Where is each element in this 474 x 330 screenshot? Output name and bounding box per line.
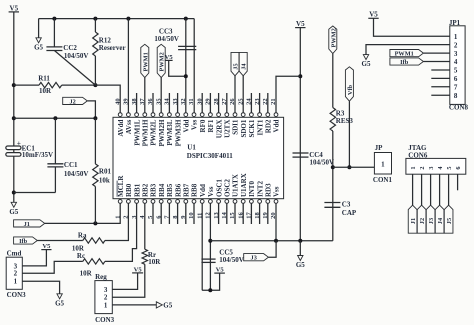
node junction R01/J1 wire — [93, 221, 97, 225]
U1 pin 22 RD2 — [266, 113, 270, 117]
svg-text:CC1: CC1 — [64, 161, 78, 169]
node junction V5/Vdd line — [184, 74, 188, 78]
ground G5 under Cmd — [57, 294, 62, 299]
svg-text:CAP: CAP — [342, 209, 357, 217]
U1 pin 2 RB0 — [126, 200, 130, 204]
wire J5 tag to pin26 — [234, 76, 236, 113]
svg-text:31: 31 — [188, 98, 195, 105]
svg-text:J4: J4 — [437, 217, 444, 224]
svg-text:10mF/35V: 10mF/35V — [22, 151, 53, 159]
U1 pin 12 Vss — [209, 200, 213, 204]
U1 pin 33 PWM3H — [176, 113, 180, 117]
svg-text:V5: V5 — [42, 243, 51, 250]
svg-text:35: 35 — [155, 98, 162, 105]
net tag J5 — [444, 205, 453, 233]
svg-text:36: 36 — [147, 98, 154, 105]
wire V5 to Reg pin3 — [112, 273, 137, 290]
svg-text:Vdd: Vdd — [199, 184, 207, 197]
U1 pin 35 PWM2H — [159, 113, 163, 117]
svg-text:1: 1 — [410, 166, 417, 169]
svg-text:6: 6 — [455, 166, 462, 169]
wire JP1 pin2 to ground — [366, 45, 450, 55]
svg-text:RES3: RES3 — [336, 117, 354, 125]
wire PWM1 tag to JP1 pin3 — [423, 52, 449, 54]
svg-text:Ifb: Ifb — [400, 59, 409, 66]
svg-text:CON1: CON1 — [373, 176, 393, 184]
power V5 mini near CC3 — [165, 59, 173, 61]
power V5 above JP1 — [368, 17, 378, 19]
wire Vss line (pin31) from rail corner — [193, 19, 195, 113]
svg-text:J4: J4 — [241, 63, 248, 70]
U1 pin 37 PWM1H — [143, 113, 147, 117]
svg-text:V5: V5 — [10, 4, 19, 12]
svg-text:+: + — [17, 139, 21, 147]
op-amp/IC U1 DSPIC30F4011 body — [113, 117, 284, 198]
svg-text:28: 28 — [213, 98, 220, 105]
svg-text:4: 4 — [454, 58, 458, 66]
wire V5 to JP1 pin1 — [374, 18, 450, 36]
net tag J1 — [14, 220, 45, 227]
net tag J2 — [63, 97, 88, 104]
svg-text:AVdd: AVdd — [117, 119, 125, 136]
U1 pin 38 PWM1L — [135, 113, 139, 117]
wire J2 to R01 — [87, 101, 95, 118]
node junction V5 line / rail — [298, 239, 302, 243]
wire bottom ground rail — [210, 240, 332, 242]
svg-text:1: 1 — [104, 301, 108, 309]
U1 pin 1 MCLR — [118, 200, 122, 204]
svg-text:1: 1 — [14, 278, 18, 286]
node junction V5/R11 — [12, 83, 16, 87]
svg-text:RD2: RD2 — [265, 119, 273, 133]
wire Vss pin12 line — [209, 203, 211, 290]
svg-text:3: 3 — [428, 166, 435, 169]
wire JP1 pin5-8 stubs — [431, 69, 450, 71]
svg-text:33: 33 — [172, 98, 179, 105]
svg-text:OSC1: OSC1 — [215, 179, 223, 197]
svg-text:SDI1: SDI1 — [232, 119, 240, 135]
svg-text:23: 23 — [254, 98, 261, 105]
svg-text:10R: 10R — [148, 258, 161, 266]
node junction J2/row2 — [93, 116, 97, 120]
net tag PWM2 (to PWM2H pin35) — [157, 44, 165, 77]
svg-text:32: 32 — [180, 98, 187, 105]
svg-text:40: 40 — [114, 98, 121, 105]
net tag J4 (to SDO1 pin25) — [239, 52, 247, 75]
power V5 right rail — [295, 27, 305, 29]
svg-text:104/50V: 104/50V — [310, 159, 335, 167]
wire top rail (AVss net) — [39, 18, 195, 20]
U1 pin 31 Vss — [192, 113, 196, 117]
svg-text:104/50V: 104/50V — [64, 170, 89, 178]
node junction V5/pin21 wire — [298, 74, 302, 78]
svg-text:INT0: INT0 — [248, 181, 256, 197]
svg-text:PWM1L: PWM1L — [133, 119, 141, 145]
svg-text:17: 17 — [246, 212, 253, 219]
capacitor CC1 104/50V — [54, 118, 56, 164]
wire V5 to Vdd pin21 — [276, 76, 300, 112]
wire to JP connector — [333, 166, 375, 168]
node junction Vfb / JP wire — [347, 165, 351, 169]
wire Vfb to JP wire — [348, 101, 350, 167]
net tag J5 (to SDI1 pin26) — [231, 52, 239, 75]
capacitor CC3 104/50V — [178, 45, 196, 47]
svg-text:RB3: RB3 — [150, 183, 158, 197]
svg-text:INT1: INT1 — [256, 119, 264, 135]
svg-text:PWM2H: PWM2H — [158, 119, 166, 146]
svg-text:5: 5 — [446, 166, 453, 169]
U1 pin 16 U1ARX — [241, 200, 245, 204]
power V5 under CC5 — [214, 272, 225, 274]
net tag J4 — [435, 205, 444, 233]
svg-text:U2RX: U2RX — [215, 120, 223, 139]
svg-text:34: 34 — [164, 98, 171, 105]
U1 pin 34 PWM3L — [168, 113, 172, 117]
svg-text:J3: J3 — [428, 218, 435, 224]
node junction CC1 top — [53, 116, 57, 120]
svg-text:3: 3 — [104, 286, 108, 294]
wire J1 to MCLR pin1 — [45, 203, 121, 223]
U1 pin 14 OSC2 — [225, 200, 229, 204]
svg-text:U1: U1 — [187, 143, 196, 151]
svg-text:U1ATX: U1ATX — [232, 174, 240, 197]
svg-text:PWM2: PWM2 — [330, 28, 337, 47]
node junction R12/rail — [93, 17, 97, 21]
svg-text:RB2: RB2 — [142, 183, 150, 197]
svg-text:C3: C3 — [342, 200, 351, 208]
wire CC2 diagonal to junction — [54, 51, 95, 86]
svg-text:1: 1 — [454, 33, 458, 41]
ground G5 right of Reg — [156, 302, 162, 308]
capacitor CC2 104/50V — [53, 19, 55, 47]
resistor R3 RES3 — [332, 54, 334, 108]
U1 pin 13 OSC1 — [217, 200, 221, 204]
svg-text:18: 18 — [254, 212, 261, 219]
svg-text:15: 15 — [229, 212, 236, 219]
U1 pin 9 RB7 — [184, 200, 188, 204]
wire Vss pin11 line — [201, 203, 203, 290]
wire Cmd pin1 to ground — [22, 281, 59, 294]
wire V5 right vertical down to bottom rail — [299, 28, 301, 241]
svg-text:8: 8 — [454, 92, 458, 100]
svg-text:Reg: Reg — [95, 273, 107, 281]
svg-text:MCLR: MCLR — [117, 175, 125, 197]
svg-text:J1: J1 — [24, 221, 30, 228]
svg-text:16: 16 — [237, 212, 244, 219]
svg-text:OSC2: OSC2 — [224, 179, 232, 197]
resistor R12 Reserver — [94, 19, 96, 32]
node junction CC3 Vdd line / rail — [184, 17, 188, 21]
U1 pin 24 SCK1 — [250, 113, 254, 117]
svg-text:G5: G5 — [362, 60, 371, 68]
net tag PWM1 (to PWM1H pin37) — [141, 44, 149, 77]
U1 pin 27 U2TX — [225, 113, 229, 117]
svg-text:Ra: Ra — [78, 231, 87, 239]
U1 pin 4 RB2 — [143, 200, 147, 204]
resistor Rc 10R — [83, 259, 105, 264]
U1 pin 15 U1ATX — [233, 200, 237, 204]
net tag J1 — [408, 205, 417, 233]
svg-text:Vdd: Vdd — [273, 119, 281, 132]
U1 pin 26 SDI1 — [233, 113, 237, 117]
svg-text:AVss: AVss — [125, 119, 133, 134]
node junction R11/R12/CC2/AVdd — [93, 83, 97, 87]
U1 pin 19 RD3 — [266, 200, 270, 204]
svg-text:INT2: INT2 — [256, 181, 264, 197]
svg-text:3: 3 — [454, 50, 458, 58]
svg-text:RB8: RB8 — [191, 183, 199, 197]
U1 pin 18 INT2 — [258, 200, 262, 204]
wire junction to AVdd pin40 — [95, 85, 120, 113]
svg-text:PWM2L: PWM2L — [150, 119, 158, 145]
svg-text:RD3: RD3 — [265, 183, 273, 197]
svg-text:RF1: RF1 — [207, 119, 215, 132]
node junction AVss/rail — [126, 17, 130, 21]
svg-text:PWM3H: PWM3H — [174, 119, 182, 146]
U1 pin 6 RB4 — [159, 200, 163, 204]
svg-text:6: 6 — [454, 75, 458, 83]
svg-text:104/50V: 104/50V — [64, 52, 89, 60]
svg-text:29: 29 — [205, 98, 212, 105]
svg-text:7: 7 — [454, 84, 458, 92]
svg-text:5: 5 — [454, 67, 458, 75]
svg-text:J5: J5 — [446, 218, 453, 224]
svg-text:Vss: Vss — [191, 119, 199, 130]
resistor R01 10k — [94, 118, 96, 164]
connector Reg CON3 — [95, 281, 112, 314]
wire J4 tag to pin25 — [242, 76, 244, 113]
svg-text:24: 24 — [246, 98, 253, 105]
node junction R3 / JP wire — [331, 165, 335, 169]
svg-text:U2TX: U2TX — [224, 120, 232, 138]
U1 pin 29 RF1 — [209, 113, 213, 117]
svg-text:CON8: CON8 — [449, 104, 469, 112]
svg-text:G5: G5 — [34, 43, 43, 51]
svg-text:Cmd: Cmd — [7, 249, 22, 257]
svg-text:Ifb: Ifb — [19, 238, 28, 245]
U1 pin 21 Vdd — [274, 113, 278, 117]
node junction pin20/J3/rail — [274, 239, 278, 243]
svg-text:PWM3L: PWM3L — [166, 119, 174, 145]
U1 pin 5 RB3 — [151, 200, 155, 204]
svg-text:PWM2: PWM2 — [159, 52, 166, 71]
power V5 above Cmd — [41, 249, 51, 251]
node junction V5/row2 — [12, 116, 16, 120]
U1 pin 28 U2RX — [217, 113, 221, 117]
wire Rc to RB1 pin3 — [105, 203, 137, 261]
svg-text:G5: G5 — [55, 299, 64, 307]
svg-text:CON3: CON3 — [95, 316, 115, 324]
svg-text:SCK1: SCK1 — [248, 119, 256, 137]
svg-text:2: 2 — [454, 41, 458, 49]
svg-text:RF0: RF0 — [199, 119, 207, 132]
svg-text:1: 1 — [381, 160, 385, 168]
net tag Vfb — [345, 67, 353, 101]
svg-text:104/50V: 104/50V — [154, 35, 179, 43]
U1 pin 36 PWM2L — [151, 113, 155, 117]
wire V5 rail left vertical — [13, 12, 15, 202]
svg-text:Reserver: Reserver — [99, 44, 126, 52]
power V5 above Reg — [132, 272, 143, 274]
U1 pin 23 INT1 — [258, 113, 262, 117]
svg-text:27: 27 — [221, 98, 228, 105]
wire Cmd pin2 to Rc — [22, 261, 83, 273]
wire Vdd line (pin32) through CC3 — [185, 19, 187, 113]
net tag J3 — [244, 254, 269, 261]
svg-text:Vss: Vss — [207, 186, 215, 197]
svg-text:22: 22 — [262, 98, 269, 105]
resistor Rr 10R — [144, 203, 146, 249]
U1 pin 17 INT0 — [250, 200, 254, 204]
svg-text:10R: 10R — [80, 269, 93, 277]
svg-text:R11: R11 — [38, 75, 50, 83]
wire Reg pin1 to ground — [112, 304, 156, 306]
svg-text:10k: 10k — [99, 176, 110, 184]
svg-text:104/50V: 104/50V — [219, 256, 244, 264]
wire V5 mini to Vdd line — [169, 60, 186, 76]
svg-text:RB6: RB6 — [174, 183, 182, 197]
wire AVss pin39 to rail — [127, 19, 129, 113]
svg-text:V5: V5 — [165, 54, 174, 61]
U1 pin 25 SDO1 — [241, 113, 245, 117]
U1 pin 3 RB1 — [135, 200, 139, 204]
svg-text:13: 13 — [213, 212, 220, 219]
svg-text:Rc: Rc — [77, 252, 85, 260]
wire J3 to rail — [269, 241, 277, 257]
svg-text:2: 2 — [419, 166, 426, 169]
svg-text:G5: G5 — [163, 302, 172, 310]
svg-text:2: 2 — [14, 270, 18, 278]
wire PWM2 tag to pin35 — [160, 78, 162, 113]
svg-text:J1: J1 — [410, 218, 417, 224]
U1 pin 10 RB8 — [192, 200, 196, 204]
svg-text:21: 21 — [270, 98, 277, 105]
svg-text:R01: R01 — [99, 168, 112, 176]
svg-text:39: 39 — [123, 98, 130, 105]
U1 pin 11 Vdd — [200, 200, 204, 204]
ground G5 at rail left end — [38, 19, 40, 38]
resistor R11 10R — [14, 84, 39, 86]
ground G5 under rail — [299, 241, 301, 256]
svg-text:PWM1: PWM1 — [142, 52, 149, 71]
wire V5 drop to pin11/12 bottoms — [202, 273, 220, 290]
svg-text:V5: V5 — [369, 11, 378, 19]
svg-text:V5: V5 — [296, 20, 305, 28]
svg-text:38: 38 — [131, 98, 138, 105]
U1 pin 8 RB6 — [176, 200, 180, 204]
svg-text:J3: J3 — [251, 255, 257, 262]
capacitor CC4 104/50V — [293, 152, 309, 154]
wire Ra to RB0 pin2 — [105, 203, 128, 240]
svg-text:DSPIC30F4011: DSPIC30F4011 — [187, 152, 233, 160]
svg-text:U1ARX: U1ARX — [240, 173, 248, 197]
U1 pin 7 RB5 — [168, 200, 172, 204]
net tag J2 — [417, 205, 426, 233]
svg-text:RB5: RB5 — [166, 183, 174, 197]
svg-text:RB7: RB7 — [183, 183, 191, 197]
svg-text:10: 10 — [188, 212, 195, 219]
node junction pin12 bottom — [208, 288, 212, 292]
svg-text:14: 14 — [221, 212, 228, 219]
svg-text:25: 25 — [237, 98, 244, 105]
wire Vss pin20 to rail — [275, 203, 277, 241]
svg-text:Vss: Vss — [273, 186, 281, 197]
svg-text:J2: J2 — [69, 98, 75, 105]
U1 pin 20 Vss — [274, 200, 278, 204]
wire PWM1 tag to pin37 — [144, 78, 146, 113]
ground G5 at JP1 pin2 — [363, 55, 368, 60]
svg-text:RB0: RB0 — [125, 183, 133, 197]
svg-text:G5: G5 — [9, 208, 18, 216]
svg-text:Vfb: Vfb — [347, 84, 354, 95]
svg-text:PWM1: PWM1 — [395, 51, 414, 58]
svg-text:J5: J5 — [233, 63, 240, 69]
svg-text:JP: JP — [375, 144, 384, 152]
resistor Ra 10R — [37, 240, 83, 242]
svg-text:30: 30 — [196, 98, 203, 105]
svg-text:26: 26 — [229, 98, 236, 105]
svg-text:V5: V5 — [216, 267, 225, 274]
svg-text:10R: 10R — [39, 87, 52, 95]
svg-text:G5: G5 — [296, 261, 305, 269]
U1 pin 39 AVss — [126, 113, 130, 117]
svg-text:RB4: RB4 — [158, 183, 166, 197]
U1 pin 32 Vdd — [184, 113, 188, 117]
wire V5 to Cmd pin3 — [22, 250, 46, 266]
svg-text:37: 37 — [139, 98, 146, 105]
node junction EC1 bottom — [12, 191, 16, 195]
svg-text:J2: J2 — [419, 218, 426, 224]
svg-text:CON3: CON3 — [7, 291, 27, 299]
svg-text:Vdd: Vdd — [183, 119, 191, 132]
net tag PWM1 (JP1 pin3) — [390, 50, 424, 57]
net tag PWM2 (right, to R3) — [329, 26, 337, 54]
U1 pin 40 AVdd — [118, 113, 122, 117]
U1 pin 30 RF0 — [200, 113, 204, 117]
ground G5 under EC1 — [11, 202, 16, 207]
wire Ifb tag to JP1 pin4 — [423, 61, 449, 63]
power V5 top-left — [9, 11, 19, 13]
capacitor C3 CAP — [324, 202, 340, 204]
wire row2 horizontal — [14, 117, 96, 119]
svg-text:V5: V5 — [134, 266, 143, 273]
capacitor EC1 10mF/35V — [6, 146, 21, 150]
net tag Ifb (JP1 pin4) — [390, 58, 424, 65]
svg-text:19: 19 — [262, 212, 269, 219]
net tag Ifb — [14, 237, 38, 244]
capacitor CC5 104/50V — [201, 258, 215, 260]
net tag J3 — [426, 205, 435, 233]
node junction pin12 / bottom rail — [208, 239, 212, 243]
node junction CC2/rail — [52, 17, 56, 21]
svg-text:PWM1H: PWM1H — [142, 119, 150, 146]
connector Cmd CON3 — [6, 257, 22, 289]
svg-text:RB1: RB1 — [133, 183, 141, 197]
svg-text:SDO1: SDO1 — [240, 119, 248, 137]
wire EC1 bottom to CC1 bottom — [14, 192, 56, 194]
